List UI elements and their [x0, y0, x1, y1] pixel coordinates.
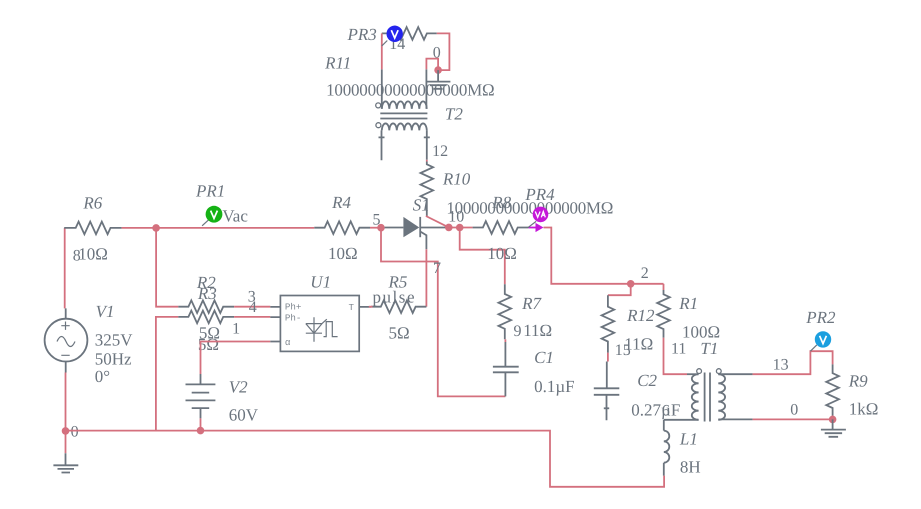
wire R6 right to node	[122, 227, 315, 229]
wire R2 right to U1 Ph+	[234, 306, 270, 308]
svg-text:Vac: Vac	[222, 207, 248, 226]
wire bottom rail	[66, 431, 665, 487]
svg-text:R6: R6	[82, 193, 102, 212]
svg-text:R12: R12	[626, 306, 655, 325]
wire V1 top to R6 left	[64, 228, 66, 309]
wire S1 gate down to R5 right	[425, 249, 427, 306]
battery V2	[186, 374, 259, 425]
svg-text:0.1µF: 0.1µF	[534, 377, 575, 396]
svg-text:10Ω: 10Ω	[487, 244, 517, 263]
svg-text:pulse: pulse	[373, 288, 415, 307]
svg-text:0.27µF: 0.27µF	[631, 401, 680, 420]
svg-text:α: α	[285, 337, 291, 348]
wire R11 left down to T2	[381, 33, 383, 69]
svg-text:PR2: PR2	[805, 308, 836, 327]
svg-text:10: 10	[448, 208, 464, 225]
resistor R12	[602, 295, 655, 359]
wire R10 bottom diagonal to node 10	[426, 216, 449, 227]
node junction V1 bottom	[62, 427, 70, 435]
wire T1 secondary top to PR2/R9	[753, 351, 833, 374]
ground under V1	[53, 453, 78, 472]
svg-text:11Ω: 11Ω	[523, 321, 552, 340]
node junction 2	[627, 280, 635, 288]
svg-text:R4: R4	[331, 193, 351, 212]
inductor L1	[664, 430, 701, 477]
node junction 0 top	[434, 66, 442, 74]
svg-text:T1: T1	[700, 339, 718, 358]
wire node 10 to R8	[449, 227, 473, 229]
capacitor C1	[493, 342, 575, 396]
svg-text:Ph+: Ph+	[285, 302, 302, 313]
wire R3 left to bottom rail	[156, 317, 178, 431]
resistor R6	[64, 193, 121, 264]
svg-text:5Ω: 5Ω	[389, 324, 410, 343]
svg-text:7: 7	[433, 260, 441, 277]
AC source V1	[45, 302, 134, 386]
transformer T2	[376, 69, 464, 160]
resistor R8	[473, 193, 529, 263]
svg-text:325V: 325V	[95, 331, 134, 350]
wire R3 right to U1 Ph-	[234, 316, 270, 318]
wire node to R2 left	[156, 228, 178, 307]
svg-text:R11: R11	[324, 53, 351, 72]
svg-text:R8: R8	[491, 193, 511, 212]
resistor R3	[178, 284, 234, 354]
node junction at R6 right	[152, 224, 160, 232]
svg-text:10Ω: 10Ω	[78, 244, 108, 263]
svg-text:5: 5	[373, 212, 381, 229]
svg-text:10000000000000000MΩ: 10000000000000000MΩ	[326, 81, 495, 100]
node junctions 10	[445, 224, 453, 232]
svg-text:10Ω: 10Ω	[328, 244, 358, 263]
svg-text:Ph-: Ph-	[285, 312, 302, 323]
svg-text:11: 11	[671, 340, 686, 357]
node junction V2 bottom	[197, 427, 205, 435]
probe PR2	[805, 308, 836, 351]
ground at T2	[426, 70, 451, 89]
svg-text:1kΩ: 1kΩ	[849, 399, 879, 418]
svg-text:C1: C1	[534, 348, 554, 367]
node junction 5	[377, 224, 385, 232]
svg-text:0: 0	[433, 44, 441, 61]
wire node 5 down around to C1 bottom	[381, 228, 505, 397]
wire R12 bottom to C2	[607, 353, 609, 362]
op-amp U1 (thyristor trigger block)	[270, 273, 371, 352]
resistor R10	[420, 160, 613, 218]
resistor R1	[657, 284, 720, 342]
svg-text:0: 0	[71, 424, 79, 441]
svg-text:V2: V2	[229, 378, 248, 397]
resistor R7	[498, 284, 552, 342]
probe PR4 current arrow	[524, 185, 555, 232]
svg-text:R10: R10	[442, 170, 471, 189]
svg-text:6: 6	[662, 403, 670, 420]
svg-text:R7: R7	[521, 294, 542, 313]
svg-text:13: 13	[773, 357, 789, 374]
wire R9 bottom to node	[832, 416, 834, 420]
svg-text:4: 4	[249, 299, 257, 316]
resistor R11	[324, 27, 495, 100]
wire V1 node to ground	[65, 431, 67, 453]
svg-text:8H: 8H	[680, 458, 701, 477]
wire V2 bottom to rail	[200, 418, 202, 430]
svg-text:PR3: PR3	[347, 25, 377, 44]
svg-text:11Ω: 11Ω	[624, 334, 653, 353]
svg-text:T: T	[349, 302, 355, 313]
svg-text:2: 2	[641, 265, 649, 282]
svg-text:R9: R9	[848, 372, 868, 391]
wire U1 alpha to V2 top	[201, 342, 271, 375]
svg-text:9: 9	[514, 323, 522, 340]
svg-text:L1: L1	[679, 430, 698, 449]
wire R1 bottom to T1 primary top	[664, 338, 688, 375]
wire T1 primary bottom corner to L1	[663, 420, 665, 431]
svg-text:PR1: PR1	[195, 182, 225, 201]
capacitor C2	[594, 362, 681, 421]
wire node 10 down to R7	[460, 228, 505, 285]
svg-text:0°: 0°	[95, 367, 110, 386]
svg-text:50Hz: 50Hz	[95, 349, 132, 368]
svg-text:1: 1	[232, 321, 240, 338]
svg-text:C2: C2	[637, 371, 657, 390]
wire T1 secondary bottom to R9 node	[753, 418, 833, 420]
wire T2 secondary right jog	[426, 59, 438, 71]
resistor R4	[314, 193, 370, 263]
svg-text:U1: U1	[310, 273, 331, 292]
resistor R9	[826, 364, 878, 418]
svg-text:0: 0	[790, 401, 798, 418]
svg-text:PR4: PR4	[524, 185, 555, 204]
ground under R9	[821, 419, 846, 436]
wire PR4 out to node 2	[544, 228, 664, 284]
probe PR1	[195, 182, 248, 226]
wire V1 bottom to rail	[65, 373, 67, 431]
svg-text:R1: R1	[678, 294, 698, 313]
wire node 2 to R12	[608, 284, 631, 295]
svg-text:R3: R3	[197, 284, 217, 303]
thyristor S1	[385, 196, 449, 250]
resistor R2	[178, 273, 234, 342]
svg-text:60V: 60V	[229, 406, 259, 425]
resistor R5	[369, 273, 427, 343]
svg-text:T2: T2	[445, 104, 463, 123]
wire R11 right to node 0 dot	[437, 33, 450, 70]
transformer T1	[664, 339, 753, 421]
svg-text:12: 12	[432, 143, 448, 160]
node junction R9 bottom	[829, 416, 837, 424]
wire R4 right to node 5	[370, 227, 381, 229]
probe PR3	[347, 25, 403, 46]
svg-text:V1: V1	[96, 302, 115, 321]
